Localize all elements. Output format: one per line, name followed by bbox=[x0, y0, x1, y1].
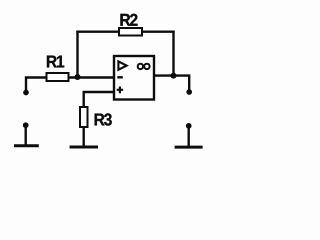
left ground terminal dot bbox=[23, 122, 29, 128]
resistor R3 bbox=[80, 107, 88, 127]
op-amp plus input sign bbox=[117, 87, 123, 94]
wire left ground stem bbox=[25, 125, 27, 145]
op-amp minus input sign bbox=[117, 76, 123, 78]
wire R3 to center ground bbox=[82, 127, 84, 146]
op-amp U1 bbox=[114, 56, 154, 100]
junction dot at inverting input bbox=[75, 74, 81, 80]
ground right bbox=[175, 146, 203, 149]
wire R1 to op-amp inverting input bbox=[69, 76, 115, 78]
output terminal dot bbox=[186, 89, 192, 95]
junction dot at output bbox=[171, 73, 177, 79]
wire feedback right vertical bbox=[172, 32, 174, 76]
resistor R1 bbox=[47, 73, 69, 81]
label R2 bbox=[120, 14, 137, 26]
ground left bbox=[14, 144, 39, 147]
ground center bbox=[70, 146, 98, 149]
label R1 bbox=[47, 56, 64, 68]
wire input vertical+horizontal to R1 bbox=[26, 78, 47, 93]
op-amp amplifier triangle bbox=[118, 61, 126, 69]
wire feedback top left to R2 bbox=[78, 31, 120, 33]
right ground terminal dot bbox=[186, 123, 192, 129]
wire R2 to right vertical bbox=[142, 31, 174, 33]
wire right ground stem bbox=[187, 126, 189, 146]
wire op-amp + input to R3 bbox=[84, 92, 114, 107]
resistor R2 bbox=[119, 28, 142, 36]
label R3 bbox=[95, 113, 112, 125]
op-amp infinity gain symbol bbox=[138, 64, 143, 69]
input terminal dot bbox=[23, 90, 29, 96]
wire feedback left vertical bbox=[76, 32, 78, 78]
wire op-amp output bbox=[154, 76, 189, 92]
